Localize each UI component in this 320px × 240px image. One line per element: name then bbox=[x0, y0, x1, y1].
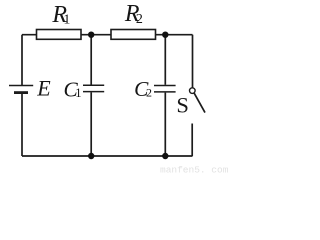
svg-text:1: 1 bbox=[63, 13, 70, 28]
svg-text:S: S bbox=[176, 93, 189, 118]
svg-text:2: 2 bbox=[136, 12, 143, 27]
svg-text:manfen5. com: manfen5. com bbox=[160, 165, 229, 176]
svg-text:2: 2 bbox=[146, 86, 152, 100]
svg-text:1: 1 bbox=[75, 86, 81, 100]
svg-text:E: E bbox=[36, 75, 51, 100]
